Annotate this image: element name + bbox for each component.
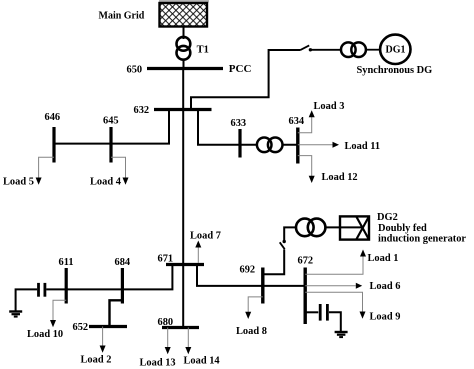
svg-text:Load 9: Load 9 [370,312,401,323]
bus 684 [121,268,124,304]
switch S2 blade [280,242,285,249]
load 3 arrow [309,110,315,117]
svg-text:Load 14: Load 14 [184,356,220,367]
svg-text:Load 5: Load 5 [3,177,34,188]
generator DG2 box [340,216,369,239]
wire 671 to 680 [182,265,184,328]
svg-text:Load 3: Load 3 [314,101,345,112]
wire 632 to 671 [182,110,184,265]
load 11 line [298,144,333,146]
svg-text:Load 8: Load 8 [236,326,267,337]
load 4 arrow [123,178,129,185]
svg-text:611: 611 [59,257,74,268]
wire 632 to DG1 switch [191,50,300,110]
bus 645 [109,127,112,163]
svg-text:DG2: DG2 [377,212,398,223]
wire transformer to 634 [282,144,298,146]
bus 611 [65,268,68,304]
bus 634 [296,128,299,164]
svg-text:Synchronous DG: Synchronous DG [357,65,433,76]
svg-text:T1: T1 [197,45,209,56]
load 5 line [39,157,54,178]
switch S1 blade [300,45,309,50]
svg-text:induction generator: induction generator [378,234,466,245]
wire 632 to 645/646 [54,110,169,144]
load 4 line [111,157,126,178]
transformer 633-634 [257,138,283,153]
svg-text:PCC: PCC [229,63,252,75]
svg-text:Load 12: Load 12 [322,172,358,183]
load 14 line [187,328,189,348]
load 7 line [197,247,199,263]
transformer DG1 [341,42,366,57]
bus 652 [89,325,127,328]
ground right [335,332,348,337]
load 1 arrow [360,250,366,257]
load 10 line [53,300,66,320]
wire capacitor to ground right [329,312,341,331]
svg-text:Load 7: Load 7 [190,231,221,242]
main grid box [160,3,208,27]
bus 671 [166,263,204,266]
svg-text:634: 634 [289,116,305,127]
wire switch to DG2 transformer [284,227,296,241]
bus 692 [261,268,264,304]
generator DG1 [380,35,410,64]
load 13 line [167,328,169,348]
wire 684 to 652 [110,300,123,326]
svg-text:Load 11: Load 11 [345,141,381,152]
wire transformer to DG1 [366,49,381,51]
svg-text:Load 4: Load 4 [90,177,121,188]
transformer DG2 [296,219,325,237]
load 1 line [305,256,363,274]
load 8 line [248,297,263,312]
capacitor C672 wire [305,311,318,313]
svg-text:Load 1: Load 1 [368,253,399,264]
load 11 arrow [333,142,340,148]
load 7 arrow [195,241,201,248]
svg-text:680: 680 [158,317,174,328]
wire 633 to transformer [240,144,257,146]
ground left [9,312,22,317]
svg-text:671: 671 [158,254,174,265]
svg-text:684: 684 [115,257,131,268]
load 14 arrow [185,347,191,354]
svg-text:Load 13: Load 13 [140,358,176,369]
load 3 line [298,117,312,133]
svg-text:652: 652 [73,322,89,333]
bus 680 [162,326,199,329]
transformer T1 [177,37,191,60]
svg-text:692: 692 [240,265,256,276]
wire 671 to 692/672 [197,265,305,286]
wire 632 to 633 [198,110,240,145]
load 6 line [305,285,356,287]
load 2 arrow [100,346,106,353]
svg-text:DG1: DG1 [386,45,406,56]
DG2 box X [356,216,369,239]
svg-text:Load 10: Load 10 [27,329,63,340]
wire 650 to 632 [182,69,184,110]
load 8 arrow [245,312,251,319]
svg-text:646: 646 [45,112,61,123]
capacitor C672 plates [319,304,322,321]
svg-text:650: 650 [127,65,143,76]
capacitor C611 plates [37,283,40,297]
wire T1 to bus 650 [183,60,185,69]
wire 692 to DG2 switch [263,250,284,275]
wire 671 to 684/611 [46,265,172,290]
bus 650 [147,67,223,70]
wire grid to T1 [183,27,185,40]
svg-text:Load 2: Load 2 [81,355,112,366]
load 12 line [298,156,312,177]
wire capacitor to ground [16,289,37,310]
bus 646 [52,127,55,163]
wire transformer to DG2 box [325,226,362,228]
bus 632 [154,108,212,111]
main grid shadow [159,0,209,2]
bus 633 [238,129,241,158]
wire switch to transformer [310,49,341,51]
svg-text:633: 633 [231,118,247,129]
svg-text:645: 645 [103,116,119,127]
svg-text:Load 6: Load 6 [370,281,401,292]
bus 672 [304,268,307,325]
svg-text:632: 632 [134,105,150,116]
load 12 arrow [309,176,315,183]
switch S1 contact dot [309,48,312,51]
svg-text:672: 672 [298,256,314,267]
load 6 arrow [356,283,362,289]
load 9 arrow [360,312,366,319]
load 13 arrow [165,347,171,354]
load 9 line [305,292,362,312]
svg-text:Main Grid: Main Grid [99,11,145,22]
load 2 line [102,327,104,346]
load 5 arrow [36,178,42,185]
load 10 arrow [50,320,56,327]
switch S2 contact dot [283,240,286,243]
